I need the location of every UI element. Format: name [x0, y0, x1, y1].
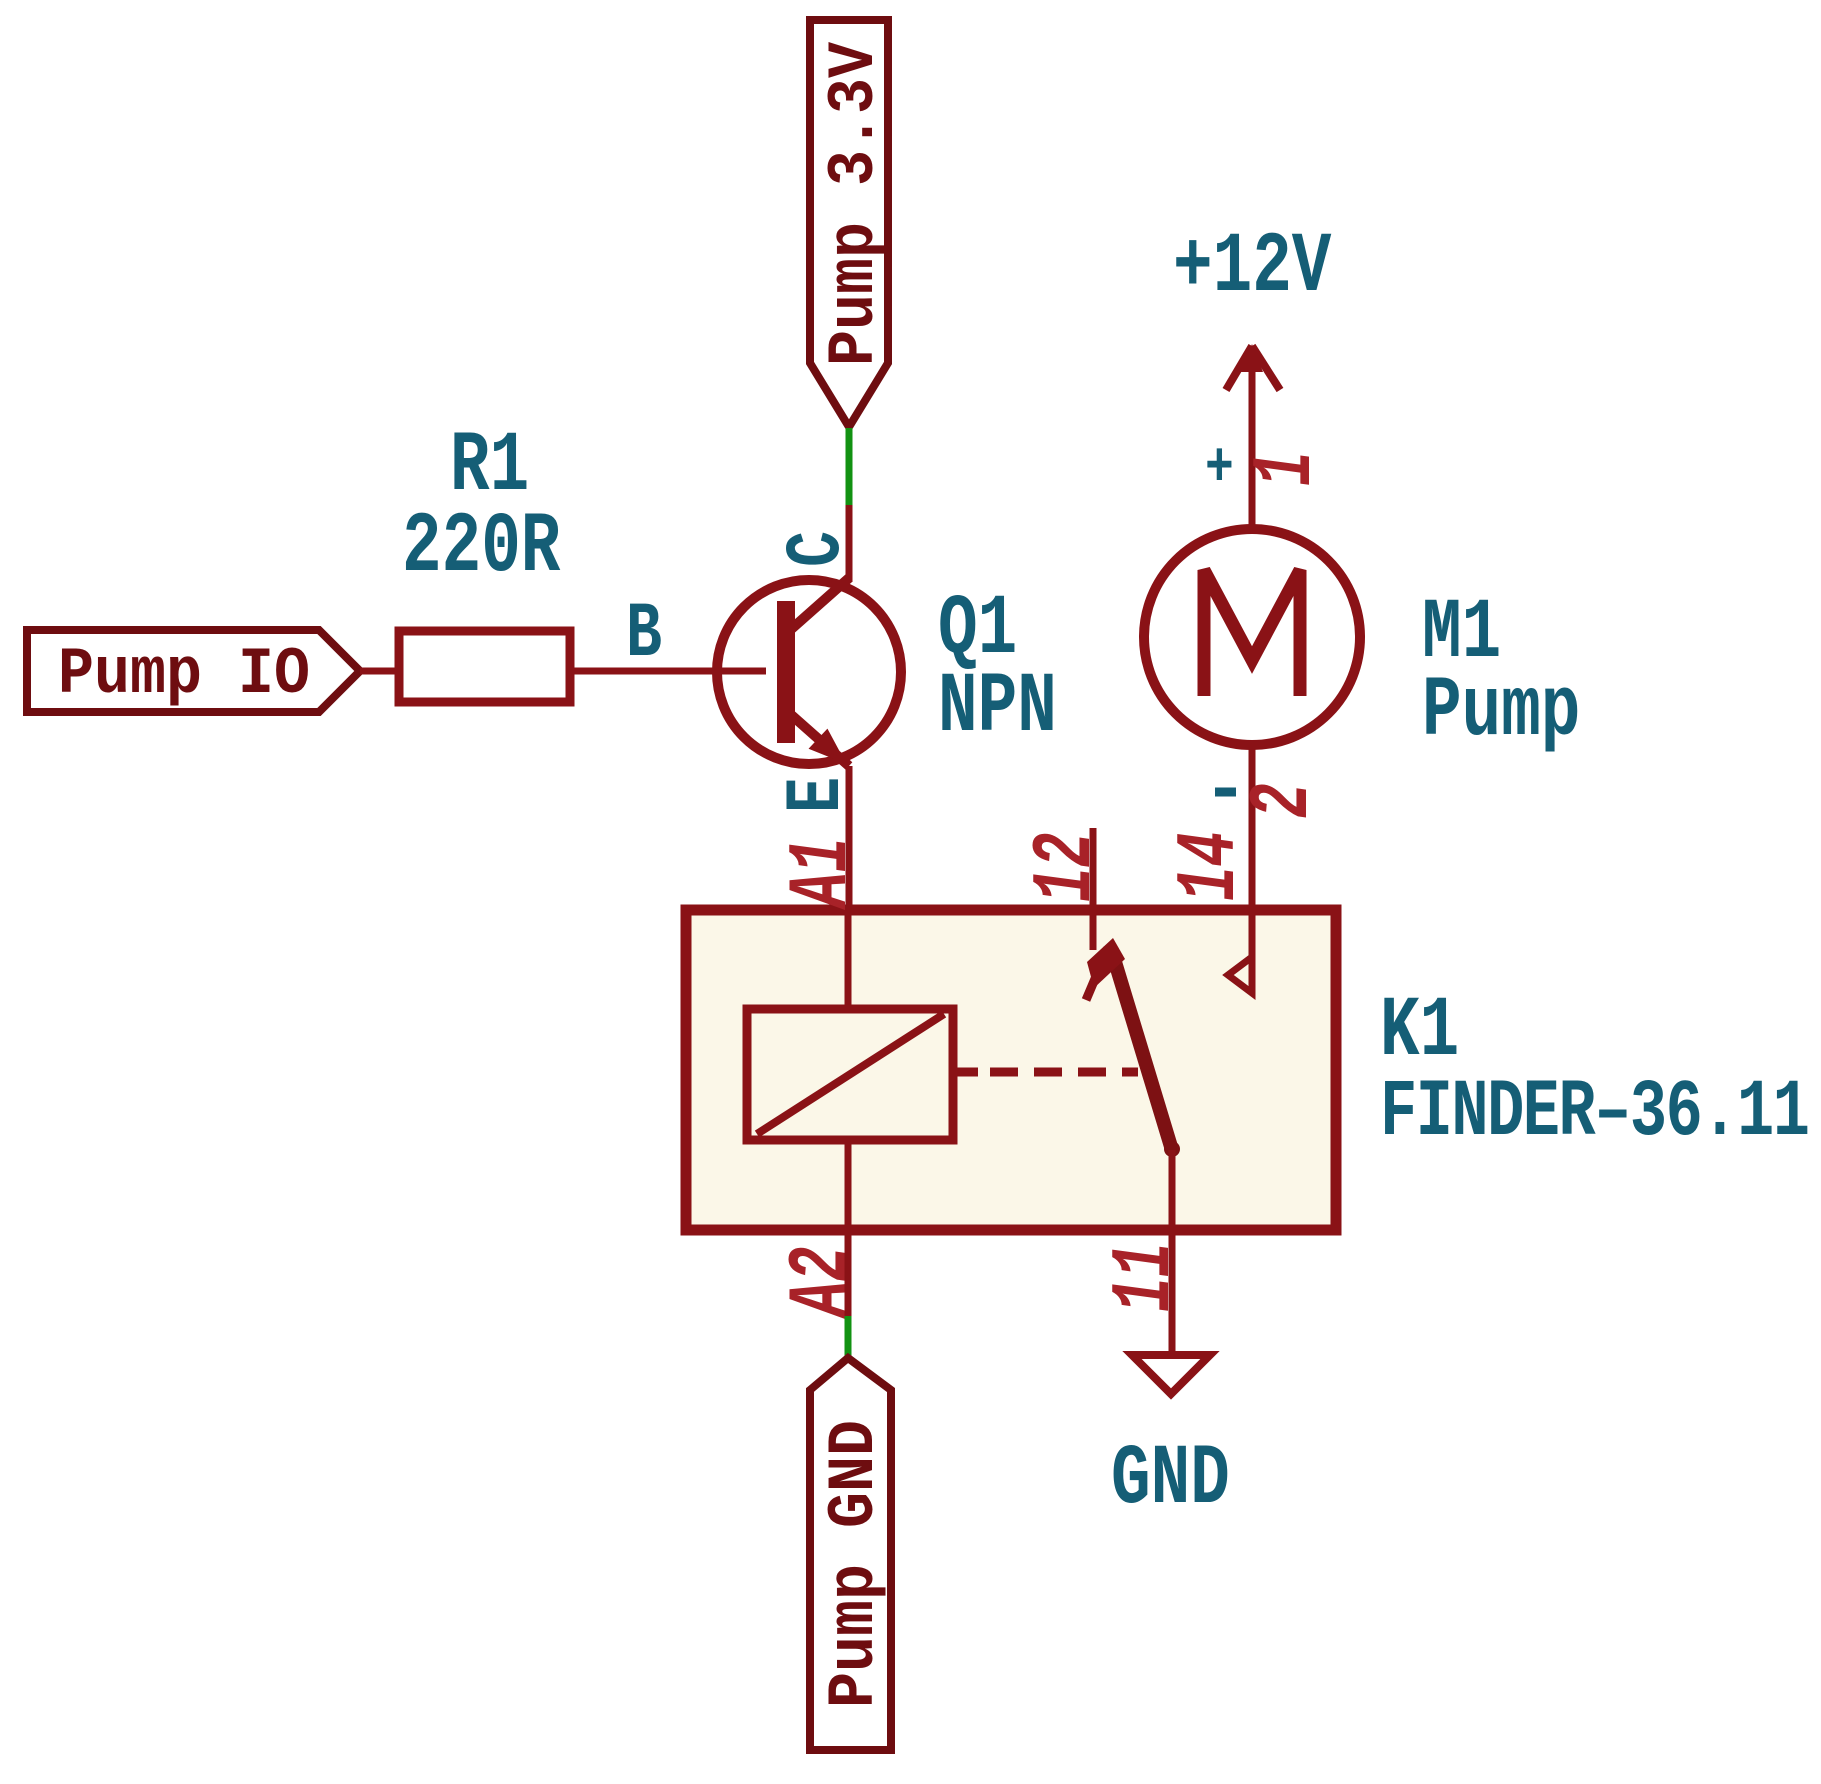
- transistor Q1: [717, 505, 901, 910]
- svg-text:Pump 3.3V: Pump 3.3V: [817, 42, 892, 366]
- svg-text:C: C: [773, 531, 862, 567]
- ground: [1132, 1355, 1210, 1394]
- reference Q1: [938, 580, 1017, 678]
- relay pin 14 contact: [1228, 910, 1252, 993]
- pin number A1: [775, 837, 870, 910]
- hierarchical label Pump GND: [810, 1358, 892, 1750]
- svg-text:+: +: [1205, 433, 1234, 504]
- value NPN: [938, 658, 1057, 756]
- relay K1 body: [686, 910, 1336, 1230]
- resistor R1: [399, 631, 766, 702]
- svg-text:220R: 220R: [402, 498, 560, 596]
- wire label to R1: [360, 668, 399, 675]
- pin number 1: [1239, 451, 1334, 486]
- relay coil: [747, 910, 953, 1230]
- pin name +: [1205, 433, 1234, 504]
- wire (green) to Pump GND label: [845, 1316, 852, 1356]
- svg-text:A1: A1: [775, 837, 870, 910]
- svg-text:A2: A2: [775, 1246, 870, 1319]
- svg-text:GND: GND: [1111, 1430, 1230, 1528]
- wire relay pin 11 to ground: [1169, 1230, 1176, 1352]
- reference R1: [450, 417, 529, 515]
- net label +12V: [1173, 218, 1331, 316]
- svg-text:FINDER–36.11: FINDER–36.11: [1380, 1067, 1808, 1159]
- pin number 14: [1163, 831, 1258, 901]
- svg-text:+12V: +12V: [1173, 218, 1331, 316]
- pin name B: [626, 590, 662, 679]
- pin name C: [773, 531, 862, 567]
- pin name E: [773, 777, 862, 813]
- value FINDER-36.11: [1380, 1067, 1808, 1159]
- svg-text:14: 14: [1163, 831, 1258, 901]
- value 220R: [402, 498, 560, 596]
- svg-text:E: E: [773, 777, 862, 813]
- svg-text:12: 12: [1019, 832, 1114, 902]
- hierarchical label Pump 3.3V: [810, 20, 892, 427]
- net label GND: [1111, 1430, 1230, 1528]
- svg-text:K1: K1: [1380, 982, 1459, 1080]
- svg-text:2: 2: [1236, 783, 1331, 818]
- svg-text:Pump IO: Pump IO: [58, 637, 310, 712]
- hierarchical label Pump IO: [27, 630, 360, 712]
- relay actuator dashed link: [953, 1068, 1138, 1077]
- motor M1: [1144, 430, 1360, 910]
- svg-text:Pump GND: Pump GND: [817, 1420, 892, 1708]
- svg-text:1: 1: [1239, 451, 1334, 486]
- pin number 11: [1098, 1242, 1193, 1312]
- svg-text:Pump: Pump: [1422, 662, 1580, 760]
- wire relay A2 to label: [845, 1230, 852, 1316]
- relay switch blade: [1086, 828, 1180, 1230]
- svg-text:11: 11: [1098, 1242, 1193, 1312]
- pin number 2: [1236, 783, 1331, 818]
- pin number A2: [775, 1246, 870, 1319]
- reference M1: [1422, 584, 1501, 682]
- pin number 12: [1019, 832, 1114, 902]
- power symbol +12V: [1226, 344, 1280, 430]
- reference K1: [1380, 982, 1459, 1080]
- svg-text:B: B: [626, 590, 662, 679]
- wire (green) label to Q1 collector: [846, 428, 853, 505]
- value Pump: [1422, 662, 1580, 760]
- pin name -: [1215, 788, 1236, 797]
- svg-text:NPN: NPN: [938, 658, 1057, 756]
